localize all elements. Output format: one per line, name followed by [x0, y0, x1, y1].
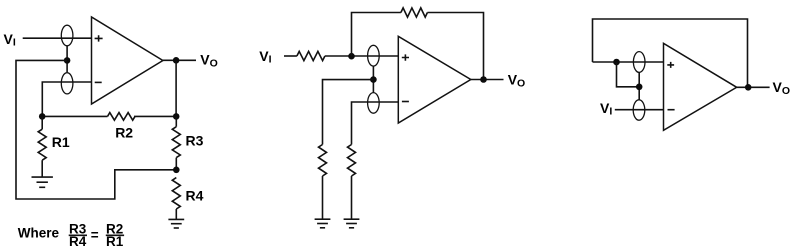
wire resistor to + input: [325, 55, 398, 57]
input oval top: [61, 25, 73, 46]
op-amp U1: [92, 17, 163, 104]
wire + input C3: [593, 61, 664, 63]
op-amp U1 plus input symbol: [95, 35, 103, 41]
op-amp U3 plus input symbol: [667, 62, 674, 68]
op-amp U2 plus input symbol: [402, 54, 409, 60]
resistor R4: [172, 178, 180, 209]
wire feedback up from input node: [352, 13, 401, 57]
wire jog dot to mid node C3: [617, 62, 640, 87]
wire oval1 to node A: [66, 46, 68, 72]
op-amp U1 minus input symbol: [95, 81, 102, 83]
wire output C3: [737, 86, 770, 88]
input oval top C3: [633, 52, 645, 73]
right bias resistor: [348, 145, 356, 177]
svg-text:=: =: [91, 227, 99, 242]
wire - input C2: [352, 102, 399, 145]
mid junction dot C2: [370, 76, 377, 83]
output junction dot C2: [480, 76, 487, 83]
resistor R2: [108, 113, 136, 121]
wire oval to mid dot C2: [372, 66, 374, 93]
junction dot input/feedback: [348, 53, 355, 60]
svg-text:Where: Where: [18, 226, 60, 241]
node A junction dot: [64, 57, 71, 64]
wire output down to R2/R3 node: [175, 60, 177, 116]
input oval bottom C2: [368, 93, 380, 114]
wire VI to + input: [23, 37, 92, 39]
ground below left bias resistor: [315, 219, 331, 228]
feedback resistor (top): [401, 8, 428, 17]
wire R2 right segment: [134, 115, 176, 117]
ground below R1: [32, 177, 53, 187]
svg-text:R2: R2: [115, 124, 133, 140]
output junction dot: [173, 57, 180, 64]
resistor R1: [41, 116, 43, 129]
output junction dot C3: [745, 84, 752, 91]
input oval bottom C3: [633, 100, 645, 120]
wire - input: [42, 82, 91, 116]
junction dot R2/R3/output: [173, 113, 180, 120]
op-amp U3: [664, 43, 737, 130]
op-amp U2 minus input symbol: [402, 101, 409, 103]
wire mid dot to left resistor: [323, 80, 374, 145]
op-amp U3 minus input symbol: [668, 109, 675, 111]
svg-text:R1: R1: [52, 134, 70, 150]
junction dot R1/R2/minus: [39, 113, 46, 120]
junction dot feedback C3: [613, 59, 620, 66]
wire between ovals C3: [638, 72, 640, 100]
wire VI3 to - input: [615, 109, 664, 111]
wire VI2 lead: [284, 55, 297, 57]
op-amp U2: [398, 36, 471, 123]
svg-text:R1: R1: [106, 234, 124, 249]
resistor R3: [175, 116, 177, 126]
wire node A to R3/R4 junction (feedback path): [16, 60, 176, 199]
wire output: [163, 59, 196, 61]
input oval bottom: [61, 73, 73, 94]
feedback wire top C3: [593, 19, 748, 87]
ground below R4: [168, 219, 184, 228]
wire feedback to output: [427, 13, 483, 80]
left bias resistor: [319, 145, 327, 177]
wire R2 left segment: [42, 115, 107, 117]
svg-text:R3: R3: [186, 133, 204, 149]
svg-text:R4: R4: [69, 234, 87, 249]
mid junction dot C3: [636, 84, 643, 91]
input oval top C2: [368, 45, 380, 66]
junction dot R3/R4: [173, 167, 180, 174]
svg-text:R4: R4: [186, 188, 204, 204]
input resistor (horizontal): [297, 51, 325, 60]
ground below right bias resistor: [344, 219, 360, 228]
wire output C2: [471, 79, 504, 81]
